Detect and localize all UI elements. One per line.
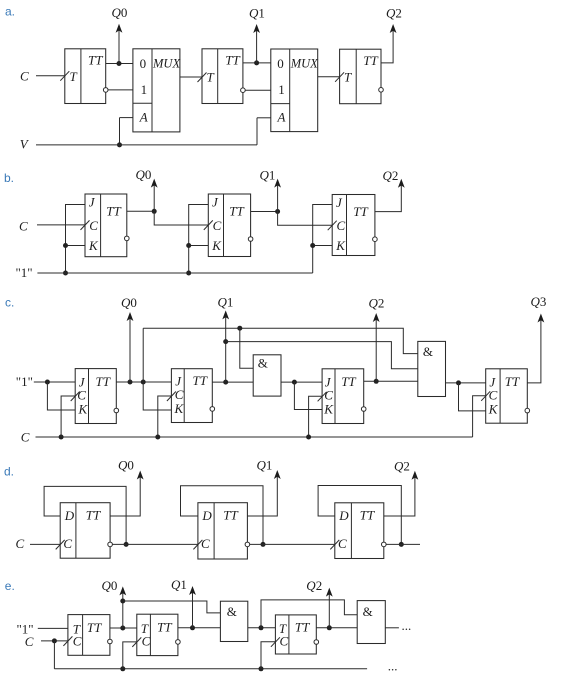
- wire C input to TFF1: [41, 640, 68, 642]
- arrow Q2 (row b): [398, 179, 405, 188]
- svg-text:c.: c.: [5, 296, 14, 310]
- arrow Q0 (row b): [151, 179, 158, 188]
- dynamic input slash JK2: [204, 220, 213, 230]
- svg-text:MUX: MUX: [290, 57, 319, 71]
- svg-text:...: ...: [388, 659, 398, 674]
- svg-text:C: C: [16, 536, 25, 551]
- inverter bubble TFF2 (row e): [176, 640, 181, 645]
- svg-text:Q2: Q2: [394, 459, 410, 474]
- svg-text:Q2: Q2: [306, 578, 322, 593]
- wire FF3 Q output to AND2: [364, 380, 418, 382]
- svg-text:TT: TT: [96, 374, 111, 389]
- node junction AND1 out: [292, 380, 297, 385]
- AND gate AND2 (row e): [357, 601, 385, 644]
- svg-text:C: C: [73, 634, 82, 649]
- wire TFF3 Q output to AND2: [316, 627, 357, 629]
- wire C down to bottom bus: [53, 641, 55, 669]
- wire C input to DFF1: [30, 543, 60, 545]
- D flip-flop DFF2: [198, 503, 248, 559]
- arrow Q2 (row c): [373, 313, 380, 322]
- svg-text:1: 1: [278, 82, 285, 97]
- svg-text:K: K: [335, 238, 346, 253]
- dynamic input slash FF2 (row c): [167, 392, 176, 402]
- svg-text:TT: TT: [363, 53, 378, 68]
- inverter bubble FF3 (row b): [373, 237, 378, 242]
- svg-text:C: C: [19, 218, 28, 233]
- svg-text:TT: TT: [295, 619, 310, 634]
- node junction line1 to AND1: [237, 326, 242, 331]
- wire MUX1 pin A stub: [120, 117, 133, 119]
- svg-text:C: C: [201, 536, 210, 551]
- wire Q0 feed line1 to AND2: [143, 328, 418, 353]
- svg-text:C: C: [25, 634, 34, 649]
- D flip-flop DFF3: [335, 503, 384, 559]
- svg-text:TT: TT: [223, 508, 238, 523]
- wire Q2 arrow up (row e): [328, 594, 330, 628]
- wire Q0 arrow up: [153, 185, 155, 212]
- svg-text:Q0: Q0: [121, 295, 137, 310]
- svg-text:C: C: [89, 218, 98, 233]
- arrow Q2 (row e): [326, 588, 333, 597]
- dynamic input slash DFF1: [56, 540, 65, 550]
- JK flip-flop FF4 (row c): [486, 369, 528, 423]
- arrow Q1 (row d): [274, 470, 281, 479]
- dynamic input slash TFF3: [271, 637, 280, 647]
- svg-text:Q2: Q2: [386, 5, 402, 20]
- svg-text:Q2: Q2: [383, 168, 399, 183]
- wire logic-1 to TFF1: [38, 627, 68, 629]
- node junction V to A1: [117, 142, 122, 147]
- node junction Q1 (row e): [190, 625, 195, 630]
- svg-text:Q0: Q0: [102, 578, 118, 593]
- inverter bubble FF4 (row c): [525, 408, 530, 413]
- svg-text:Q0: Q0: [118, 458, 134, 473]
- node junction 1-line FF2: [186, 271, 191, 276]
- svg-text:Q1: Q1: [171, 577, 187, 592]
- inverter bubble FF1 (row b): [125, 236, 130, 241]
- wire TT2 Q output to MUX2 pin 0: [243, 62, 271, 64]
- wire J/K bus FF2: [189, 205, 209, 274]
- inverter bubble TT3: [379, 88, 384, 93]
- node junction C bus (row e): [52, 638, 57, 643]
- feedback loop DFF2: [181, 486, 264, 545]
- node junction K2: [186, 243, 191, 248]
- arrow Q1: [253, 24, 260, 33]
- wire FF2 Q output: [251, 211, 278, 213]
- node junction Q1: [254, 60, 259, 65]
- wire FF4 Q output to Q3 arrow: [527, 320, 541, 383]
- wire C input to JK1: [37, 224, 85, 226]
- wire AND1 input 1: [240, 328, 253, 368]
- wire MUX2 pin A stub: [257, 117, 271, 119]
- dynamic input slash JK3: [328, 221, 337, 231]
- svg-text:"1": "1": [16, 265, 33, 280]
- svg-text:TT: TT: [229, 204, 244, 219]
- dynamic input slash TFF1: [63, 636, 72, 646]
- wire C1 up: [61, 396, 75, 437]
- inverter bubble TT2: [241, 88, 246, 93]
- inverter bubble TT1: [103, 88, 108, 93]
- wire FF1 Q output to FF2 J: [116, 381, 171, 383]
- wire TT1 inverted output to MUX1 pin 1: [108, 89, 133, 91]
- wire MUX2 A down to V line end: [256, 118, 258, 145]
- wire DFF2 inverted output to DFF3 clock: [250, 543, 335, 545]
- node junction bottom bus to TFF3 clock: [259, 666, 264, 671]
- svg-text:1: 1: [141, 82, 148, 97]
- svg-text:A: A: [277, 110, 286, 125]
- dynamic input slash TT1: [60, 71, 69, 81]
- wire TFF3 clock from bus: [261, 642, 275, 669]
- svg-text:MUX: MUX: [152, 57, 181, 71]
- wire Q1 arrow up: [277, 185, 279, 212]
- inverter bubble TFF3 (row e): [314, 640, 319, 645]
- node junction C2: [155, 435, 160, 440]
- arrow Q2: [390, 24, 397, 33]
- dynamic input slash TFF2: [132, 637, 141, 647]
- svg-text:0: 0: [277, 56, 284, 71]
- T flip-flop TT2: [202, 49, 243, 104]
- svg-text:C: C: [280, 634, 289, 649]
- svg-text:Q1: Q1: [260, 168, 276, 183]
- wire Q1 down to FF3 clock: [278, 212, 333, 226]
- inverter bubble FF2 (row c): [210, 407, 215, 412]
- svg-text:&: &: [363, 604, 373, 619]
- svg-text:C: C: [63, 536, 72, 551]
- svg-text:TT: TT: [86, 508, 101, 523]
- wire C3 up: [309, 396, 323, 437]
- wire Q1 up: [256, 30, 258, 63]
- svg-text:A: A: [139, 109, 148, 124]
- inverter bubble DFF3: [382, 542, 387, 547]
- node junction Q1 (row b): [275, 209, 280, 214]
- svg-text:D: D: [338, 508, 349, 523]
- svg-text:...: ...: [402, 618, 412, 633]
- wire Q0 arrow up (row e): [122, 592, 124, 628]
- wire V bus: [36, 144, 257, 146]
- svg-text:Q0: Q0: [112, 5, 128, 20]
- wire TFF2 Q output to AND1: [178, 627, 221, 629]
- JK flip-flop FF1 (row b): [85, 194, 127, 257]
- arrow Q3 (row c): [538, 314, 545, 323]
- node junction J1/K1: [45, 380, 50, 385]
- wire bottom C bus (row e): [54, 668, 367, 670]
- svg-text:&: &: [258, 355, 268, 370]
- wire C input to TT1: [36, 75, 65, 77]
- node junction Q0 (row b): [152, 209, 157, 214]
- arrow Q0 (row d): [137, 471, 144, 480]
- svg-text:TT: TT: [505, 374, 520, 389]
- T flip-flop TT3: [340, 49, 381, 103]
- wire Q2 arrow up (row c): [375, 319, 377, 381]
- wire FF1 Q output: [127, 210, 154, 212]
- svg-text:b.: b.: [4, 171, 14, 185]
- wire Q1 feed line2 to AND2: [226, 342, 418, 369]
- wire DFF1 inverted output to DFF2 clock: [112, 543, 197, 545]
- wire K3 branch (row c): [294, 382, 322, 409]
- wire logic-1 to FF1 J: [34, 381, 75, 383]
- AND gate AND1 (row e): [220, 601, 247, 641]
- wire Q1 arrow up (row c): [225, 316, 227, 382]
- node junction loop1: [124, 542, 129, 547]
- node junction K3: [310, 243, 315, 248]
- svg-text:TT: TT: [193, 373, 208, 388]
- JK flip-flop FF2 (row c): [171, 369, 212, 423]
- node junction C3: [306, 435, 311, 440]
- svg-text:TT: TT: [88, 53, 103, 68]
- svg-text:K: K: [174, 401, 185, 416]
- dynamic input slash DFF2: [193, 540, 202, 550]
- svg-text:C: C: [142, 634, 151, 649]
- svg-text:Q1: Q1: [257, 458, 273, 473]
- wire Q0 up: [118, 30, 120, 64]
- svg-text:C: C: [337, 218, 346, 233]
- T flip-flop TFF3 (row e): [275, 615, 316, 654]
- dynamic input slash TT3: [335, 72, 344, 82]
- arrow Q1 (row e): [189, 586, 196, 595]
- wire TT1 Q output to MUX1 pin 0: [106, 63, 133, 65]
- svg-text:K: K: [88, 238, 99, 253]
- svg-text:0: 0: [140, 56, 147, 71]
- feedback loop DFF1: [44, 486, 126, 544]
- svg-text:Q0: Q0: [136, 167, 152, 182]
- svg-text:"1": "1": [16, 374, 33, 389]
- wire AND2 output to FF4 J: [446, 382, 486, 384]
- wire DFF1 Q output to Q0 arrow: [110, 477, 140, 517]
- node junction C1: [59, 435, 64, 440]
- arrow Q1 (row c): [222, 310, 229, 319]
- svg-text:T: T: [344, 70, 352, 85]
- arrow Q0 (row e): [119, 586, 126, 595]
- D flip-flop DFF1: [60, 503, 110, 559]
- node junction Q0: [117, 61, 122, 66]
- JK flip-flop FF3 (row b): [332, 195, 375, 256]
- node junction loop2: [261, 542, 266, 547]
- wire FF3 Q output to Q2 arrow: [375, 185, 401, 212]
- svg-text:e.: e.: [5, 579, 15, 593]
- dynamic input slash DFF3: [330, 540, 339, 550]
- svg-text:C: C: [213, 218, 222, 233]
- wire Q0 branch vertical with K2: [143, 328, 171, 410]
- svg-text:TT: TT: [225, 53, 240, 68]
- JK flip-flop FF1 (row c): [75, 369, 116, 424]
- wire Q0 branch to AND1 input 1: [123, 601, 221, 613]
- wire MUX1 A down to V line: [119, 118, 121, 145]
- node junction Q2 (row e): [327, 625, 332, 630]
- arrow Q2 (row d): [412, 471, 419, 480]
- wire AND2 output stub: [385, 627, 399, 629]
- svg-text:C: C: [77, 388, 86, 403]
- arrow Q1 (row b): [274, 179, 281, 188]
- wire K4 branch (row c): [459, 383, 486, 411]
- svg-text:K: K: [78, 402, 89, 417]
- wire TT2 inverted output to MUX2 pin 1: [245, 89, 271, 91]
- svg-text:d.: d.: [4, 465, 14, 479]
- svg-text:D: D: [201, 508, 212, 523]
- node junction 1-line FF1: [63, 271, 68, 276]
- svg-text:Q1: Q1: [218, 295, 234, 310]
- svg-text:C: C: [21, 430, 30, 445]
- node junction AND1 out (row e): [259, 625, 264, 630]
- wire TFF2 clock from bus: [123, 642, 137, 669]
- svg-text:Q1: Q1: [249, 5, 265, 20]
- node junction AND2 out: [456, 380, 461, 385]
- wire TT3 Q output to Q2 arrow: [381, 30, 393, 63]
- wire logic-1 bus (row b): [37, 272, 312, 274]
- wire Q0 down to FF2 clock: [154, 211, 208, 225]
- svg-text:TT: TT: [87, 620, 102, 635]
- T flip-flop TT1: [65, 49, 106, 104]
- svg-text:T: T: [207, 70, 215, 85]
- svg-text:TT: TT: [360, 508, 375, 523]
- arrow Q0 (row c): [127, 312, 134, 321]
- multiplexer MUX2: [271, 49, 318, 132]
- dynamic input slash FF3 (row c): [318, 392, 327, 402]
- svg-text:D: D: [64, 508, 75, 523]
- svg-text:C: C: [489, 388, 498, 403]
- svg-text:T: T: [70, 69, 78, 84]
- wire C4 up from C bus end: [473, 396, 486, 437]
- node junction Q1 to line2: [223, 339, 228, 344]
- wire K1 branch: [47, 382, 75, 410]
- svg-text:K: K: [211, 238, 222, 253]
- svg-text:TT: TT: [353, 204, 368, 219]
- AND gate AND2 (row c): [418, 341, 446, 396]
- svg-text:TT: TT: [106, 204, 121, 219]
- node junction Q0 (row c): [128, 380, 133, 385]
- svg-text:C: C: [324, 388, 333, 403]
- node junction loop3: [399, 542, 404, 547]
- wire DFF2 Q output to Q1 arrow: [247, 476, 277, 516]
- svg-text:C: C: [338, 536, 347, 551]
- svg-text:Q2: Q2: [369, 296, 385, 311]
- dynamic input slash FF4 (row c): [481, 391, 490, 401]
- dynamic input slash FF1 (row c): [71, 392, 80, 402]
- node junction Q1 (row c): [223, 380, 228, 385]
- AND gate AND1 (row c): [253, 355, 281, 396]
- JK flip-flop FF3 (row c): [322, 369, 364, 424]
- svg-text:&: &: [227, 604, 237, 619]
- wire AND1 output to FF3 J: [281, 381, 322, 383]
- inverter bubble FF3 (row c): [361, 407, 366, 412]
- svg-text:TT: TT: [157, 620, 172, 635]
- svg-text:C: C: [20, 69, 29, 84]
- svg-text:TT: TT: [341, 374, 356, 389]
- wire AND1 output to TFF3: [248, 627, 276, 629]
- wire DFF3 Q output to Q2 arrow: [384, 477, 415, 516]
- JK flip-flop FF2 (row b): [208, 194, 250, 257]
- svg-text:C: C: [175, 387, 184, 402]
- T flip-flop TFF1 (row e): [68, 615, 110, 656]
- inverter bubble TFF1 (row e): [108, 639, 113, 644]
- wire J/K bus FF3: [313, 205, 333, 274]
- wire MUX1 output to TT2: [180, 76, 202, 78]
- inverter bubble FF2 (row b): [248, 237, 253, 242]
- wire C bus (row c): [36, 436, 473, 438]
- svg-text:&: &: [423, 344, 433, 359]
- svg-text:Q3: Q3: [531, 294, 547, 309]
- wire AND1 out branch to AND2 input 1: [261, 600, 357, 628]
- node junction Q2 (row c): [374, 379, 379, 384]
- wire C2 up: [158, 396, 172, 437]
- dynamic input slash TT2: [198, 73, 207, 83]
- inverter bubble DFF2: [245, 542, 250, 547]
- dynamic input slash JK1: [81, 220, 90, 230]
- feedback loop DFF3: [318, 486, 401, 545]
- multiplexer MUX1: [133, 49, 180, 132]
- inverter bubble DFF1: [108, 542, 113, 547]
- wire TFF1 Q output to TFF2: [110, 627, 137, 629]
- svg-text:K: K: [488, 402, 499, 417]
- wire Q0 arrow up (row c): [129, 318, 131, 382]
- node junction Q0 (row e): [120, 626, 125, 631]
- wire MUX2 output to TT3: [318, 76, 340, 78]
- wire FF2 Q output to AND1: [212, 381, 253, 383]
- wire Q1 arrow up (row e): [192, 592, 194, 628]
- wire J/K bus FF1: [66, 205, 86, 274]
- svg-text:K: K: [323, 402, 334, 417]
- node junction Q0 branch: [141, 380, 146, 385]
- node junction Q0 to AND1 branch: [120, 599, 125, 604]
- node junction bottom bus to TFF2 clock: [120, 666, 125, 671]
- arrow Q0: [116, 24, 123, 33]
- wire DFF3 inverted output stub: [386, 543, 420, 545]
- T flip-flop TFF2 (row e): [137, 614, 178, 655]
- inverter bubble FF1 (row c): [114, 408, 119, 413]
- node junction K1: [63, 243, 68, 248]
- svg-text:a.: a.: [5, 5, 15, 19]
